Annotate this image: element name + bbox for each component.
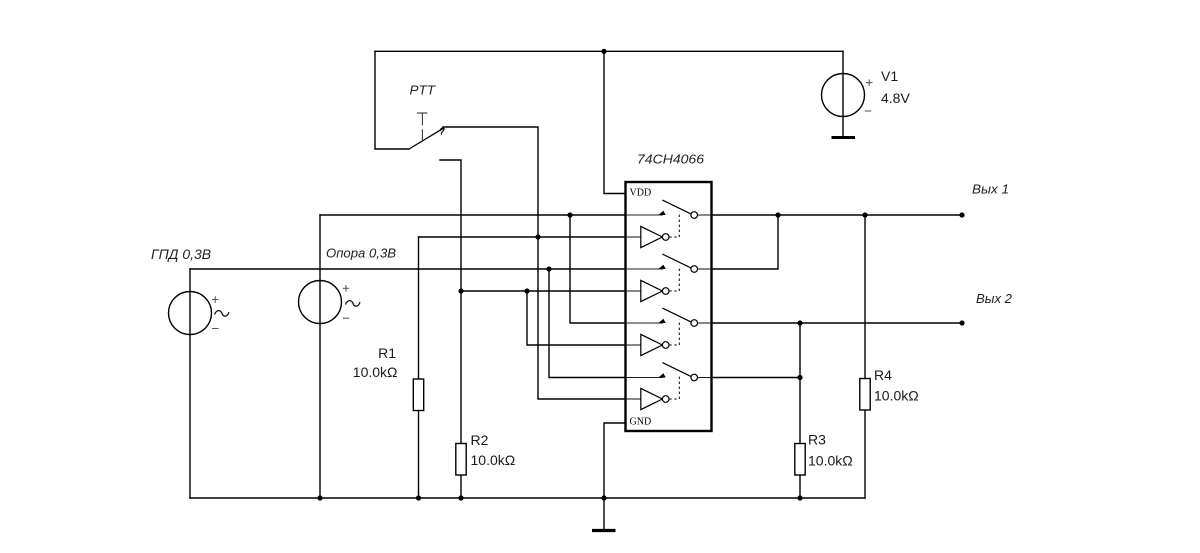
wire Opora net to switch1 input bbox=[320, 214, 626, 216]
node rail ground bbox=[601, 495, 606, 500]
blade bbox=[409, 128, 444, 149]
inverter bubble bbox=[662, 396, 669, 403]
node rail Opora bbox=[317, 495, 322, 500]
node rail R3 bbox=[797, 495, 802, 500]
svg-text:4.8V: 4.8V bbox=[881, 90, 910, 106]
wire switch2 output link bbox=[712, 215, 779, 269]
node out2/R3 bbox=[797, 320, 802, 325]
control dashed link bbox=[669, 266, 679, 291]
node rail R2 bbox=[458, 495, 463, 500]
voltage source Opora 0,3V bbox=[299, 246, 397, 324]
analog switch S4 bbox=[626, 363, 712, 410]
svg-text:Опора 0,3В: Опора 0,3В bbox=[326, 246, 396, 261]
node GPD to sw4 bbox=[546, 266, 551, 271]
resistor R1 bbox=[413, 379, 423, 411]
control inverter U1.1 bbox=[641, 226, 663, 247]
svg-text:V1: V1 bbox=[881, 68, 898, 84]
wire net A horizontal to U1 inverter1 bbox=[419, 236, 626, 238]
output contact S1 bbox=[691, 212, 698, 219]
control dashed link bbox=[669, 212, 679, 237]
svg-text:10.0kΩ: 10.0kΩ bbox=[808, 453, 853, 469]
internal pin stubs S2 bbox=[626, 269, 712, 291]
control dashed link bbox=[669, 374, 679, 399]
output contact S4 bbox=[691, 374, 698, 381]
blade S3 bbox=[662, 308, 690, 322]
wire output 2 (Vyh 2) bbox=[712, 322, 963, 324]
inverter bubble bbox=[662, 234, 669, 241]
svg-text:GND: GND bbox=[630, 417, 652, 428]
svg-text:Вых 2: Вых 2 bbox=[976, 291, 1013, 306]
svg-text:10.0kΩ: 10.0kΩ bbox=[353, 364, 398, 380]
node net A junction bbox=[535, 234, 540, 239]
resistor R3 bbox=[795, 444, 805, 476]
output contact S2 bbox=[691, 266, 698, 273]
switch PTT bbox=[409, 83, 444, 150]
input arrow S3 bbox=[658, 319, 665, 323]
node net B at R2 bbox=[458, 288, 463, 293]
ground (V1) bbox=[832, 136, 856, 139]
analog switch S2 bbox=[626, 254, 712, 302]
wire top rail bbox=[375, 50, 843, 52]
input arrow S1 bbox=[658, 211, 665, 215]
control inverter U1.3 bbox=[641, 334, 663, 355]
voltage source V1 bbox=[822, 68, 911, 117]
node out4/R3 bbox=[797, 375, 802, 380]
wire GPD source drop bbox=[189, 269, 191, 498]
wire PTT left drop bbox=[375, 51, 409, 149]
output contact S3 bbox=[691, 320, 698, 327]
wire switch4 output link bbox=[712, 377, 801, 379]
wire Opora net to switch3 input bbox=[570, 215, 626, 323]
actuator dashes bbox=[421, 114, 423, 141]
node terminal Vyh 2 bbox=[959, 320, 964, 325]
blade S2 bbox=[662, 254, 690, 268]
svg-text:PTT: PTT bbox=[410, 83, 437, 98]
actuator T cap bbox=[417, 112, 427, 114]
node out1/R4 bbox=[862, 212, 867, 217]
wire ground stub bbox=[603, 498, 605, 531]
control inverter U1.2 bbox=[641, 280, 663, 301]
blade arrowhead curl bbox=[440, 128, 444, 135]
node out1/out2 join bbox=[775, 212, 780, 217]
inverter bubble bbox=[662, 342, 669, 349]
svg-text:74CH4066: 74CH4066 bbox=[637, 152, 705, 167]
node top rail / VDD bbox=[601, 49, 606, 54]
wire R3 branch bbox=[799, 323, 801, 498]
analog switch S3 bbox=[626, 308, 712, 356]
svg-text:VDD: VDD bbox=[630, 188, 652, 199]
control inverter U1.4 bbox=[641, 388, 663, 409]
internal pin stubs S4 bbox=[626, 378, 712, 400]
node terminal Vyh 1 bbox=[959, 212, 964, 217]
svg-text:10.0kΩ: 10.0kΩ bbox=[874, 388, 919, 404]
node rail R1 bbox=[416, 495, 421, 500]
node Opora to sw3 bbox=[567, 212, 572, 217]
wire R4 branch bbox=[864, 215, 866, 498]
wire R1 branch bbox=[418, 237, 420, 498]
svg-text:10.0kΩ: 10.0kΩ bbox=[471, 452, 516, 468]
svg-text:R2: R2 bbox=[471, 432, 489, 448]
internal pin stubs S3 bbox=[626, 323, 712, 345]
ground (bottom) bbox=[592, 529, 616, 532]
svg-text:R3: R3 bbox=[808, 432, 826, 448]
IC U1 74CH4066 box bbox=[626, 182, 712, 431]
control dashed link bbox=[669, 320, 679, 345]
wire GPD net to switch2 input bbox=[190, 268, 626, 270]
inverter bubble bbox=[662, 288, 669, 295]
wire bottom rail bbox=[190, 497, 865, 499]
wire PTT throw2 stub bbox=[440, 160, 461, 498]
wire GPD net to switch4 input bbox=[549, 269, 626, 378]
svg-text:R4: R4 bbox=[874, 367, 892, 383]
analog switch S1 bbox=[626, 200, 712, 248]
wire GND pin bbox=[604, 423, 626, 498]
svg-text:ГПД 0,3В: ГПД 0,3В bbox=[151, 247, 211, 262]
svg-text:R1: R1 bbox=[378, 345, 396, 361]
analog switch cells bbox=[626, 200, 712, 410]
wire output 1 (Vyh 1) bbox=[712, 214, 963, 216]
wire VDD pin bbox=[604, 51, 626, 193]
resistor R2 bbox=[456, 444, 466, 476]
wire net B to inverter3 bbox=[527, 291, 626, 345]
wire PTT throw1 to net A bbox=[443, 127, 626, 399]
wire V1 drop bbox=[842, 51, 844, 137]
wire Opora source drop bbox=[319, 215, 321, 498]
wire net B horizontal to U1 inverter2 bbox=[461, 290, 626, 292]
input arrow S4 bbox=[658, 373, 665, 377]
node net B to inv3 bbox=[524, 288, 529, 293]
resistor R4 bbox=[860, 379, 870, 411]
blade S4 bbox=[662, 363, 690, 377]
svg-text:Вых 1: Вых 1 bbox=[972, 182, 1009, 197]
internal pin stubs S1 bbox=[626, 215, 712, 237]
input arrow S2 bbox=[658, 265, 665, 269]
blade S1 bbox=[662, 200, 690, 214]
voltage source GPD 0,3V bbox=[151, 247, 229, 335]
